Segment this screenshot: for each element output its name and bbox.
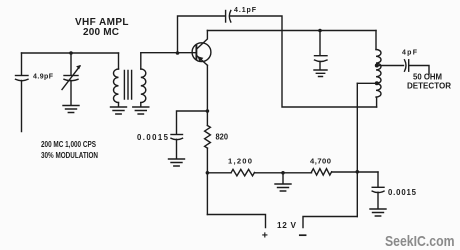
svg-text:4.1pF: 4.1pF (234, 7, 257, 14)
svg-text:0.0015: 0.0015 (137, 133, 169, 142)
svg-text:SeekIC.com: SeekIC.com (385, 233, 455, 250)
svg-text:200 MC 1,000 CPS: 200 MC 1,000 CPS (41, 140, 96, 149)
svg-text:1,200: 1,200 (228, 157, 252, 166)
svg-text:820: 820 (216, 132, 229, 141)
svg-text:4pF: 4pF (402, 50, 418, 57)
svg-text:4,700: 4,700 (310, 156, 331, 165)
svg-text:30% MODULATION: 30% MODULATION (41, 151, 98, 160)
svg-text:4.9pF: 4.9pF (33, 73, 54, 80)
svg-text:0.0015: 0.0015 (388, 188, 417, 197)
svg-text:200 MC: 200 MC (83, 27, 119, 38)
svg-text:DETECTOR: DETECTOR (407, 81, 451, 91)
svg-text:+: + (262, 230, 268, 242)
svg-text:12 V: 12 V (277, 221, 297, 230)
